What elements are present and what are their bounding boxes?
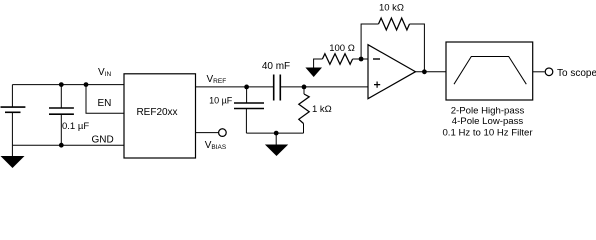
svg-text:40 mF: 40 mF (262, 61, 290, 72)
svg-text:0.1 Hz to 10 Hz Filter: 0.1 Hz to 10 Hz Filter (442, 128, 533, 139)
svg-text:4-Pole Low-pass: 4-Pole Low-pass (452, 116, 524, 127)
svg-text:1 kΩ: 1 kΩ (312, 104, 332, 115)
svg-text:2-Pole High-pass: 2-Pole High-pass (451, 106, 525, 117)
svg-text:100 Ω: 100 Ω (329, 43, 355, 54)
svg-text:To scope: To scope (557, 68, 596, 79)
svg-text:0.1 µF: 0.1 µF (62, 121, 89, 132)
svg-text:EN: EN (98, 98, 112, 109)
svg-text:REF20xx: REF20xx (136, 107, 177, 118)
svg-text:GND: GND (92, 135, 114, 146)
svg-text:10 µF: 10 µF (209, 96, 233, 106)
svg-text:10 kΩ: 10 kΩ (379, 2, 404, 13)
